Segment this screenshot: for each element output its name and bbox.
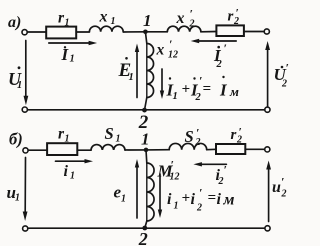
svg-text:i: i: [191, 191, 196, 208]
current arrow i1 (circuit b): [56, 160, 86, 162]
bottom wire (circuit b): [28, 227, 265, 229]
label u1: [7, 183, 21, 204]
label r2' (circuit b): [231, 127, 243, 146]
svg-text:1: 1: [141, 130, 150, 149]
svg-text:′: ′: [224, 41, 227, 55]
svg-text:+: +: [182, 191, 191, 207]
label r2': [228, 8, 240, 28]
svg-text:12: 12: [168, 50, 178, 61]
svg-text:2: 2: [218, 176, 224, 187]
svg-text:1: 1: [65, 18, 70, 29]
wire L1 to node 1: [123, 31, 145, 33]
svg-text:1: 1: [15, 193, 20, 204]
label x1: [99, 9, 116, 28]
inductor S1 (circuit b): [91, 145, 125, 150]
node 1 (circuit b): [144, 148, 149, 153]
terminal top-left (circuit b): [23, 148, 28, 153]
svg-text:м: м: [229, 84, 239, 99]
inductor M12' (magnetizing, circuit b): [147, 163, 154, 221]
label U2': [274, 61, 289, 90]
svg-text:r: r: [231, 127, 237, 143]
svg-text:′: ′: [171, 158, 174, 172]
svg-text:2: 2: [138, 229, 148, 246]
svg-text:м: м: [223, 192, 235, 209]
svg-text:r: r: [228, 9, 234, 25]
resistor r2' (circuit b): [216, 144, 245, 154]
svg-text:1: 1: [174, 201, 179, 212]
label I2': [213, 41, 227, 70]
svg-text:′: ′: [281, 175, 284, 189]
svg-text:2: 2: [195, 92, 202, 103]
svg-text:1: 1: [17, 80, 22, 91]
svg-text:12: 12: [170, 172, 180, 183]
node 2 (circuit b): [142, 226, 147, 231]
inductor x1 (circuit a): [89, 26, 123, 32]
magnetizing branch wire from node 1: [145, 32, 146, 44]
svg-text:2: 2: [281, 79, 287, 90]
wire R2'b to terminal: [245, 148, 264, 150]
svg-text:=: =: [208, 190, 217, 206]
svg-text:=: =: [203, 81, 212, 97]
svg-text:1: 1: [65, 134, 70, 145]
inductor x2' (circuit a): [167, 26, 201, 32]
svg-text:1: 1: [70, 171, 75, 182]
inductor x12' (magnetizing, circuit a): [147, 44, 154, 98]
formula I1 + I2' = Im (circuit a): [166, 74, 240, 104]
label M12': [157, 158, 180, 183]
wire R2' to terminal: [244, 31, 265, 33]
svg-text:x: x: [176, 10, 185, 27]
label U1: [8, 66, 22, 91]
bottom wire (circuit a): [28, 109, 265, 111]
label S1: [105, 124, 121, 145]
resistor r2' (circuit a): [216, 25, 244, 36]
svg-text:2: 2: [216, 59, 223, 70]
label i2': [216, 163, 227, 188]
wire node 1b to S2': [146, 149, 169, 151]
svg-text:1: 1: [116, 134, 121, 145]
label I1: [61, 45, 75, 65]
svg-text:u: u: [272, 179, 281, 196]
wire R1 to L1: [76, 31, 89, 33]
svg-text:i: i: [64, 163, 69, 180]
label u2': [272, 175, 287, 200]
wire coil to node 2b: [145, 221, 147, 228]
label S2': [185, 126, 201, 149]
wire R1b to S1: [77, 149, 91, 151]
label x12': [156, 37, 179, 61]
svg-text:x: x: [99, 9, 108, 26]
svg-text:+: +: [182, 82, 191, 98]
magnetizing current arrow (circuit b): [159, 174, 161, 211]
terminal bottom-left (circuit b): [23, 226, 28, 231]
label r1: [58, 10, 70, 29]
current arrow I2' (circuit a): [197, 40, 236, 42]
resistor r1 (circuit b): [47, 143, 77, 155]
current arrow I1 (circuit a): [49, 42, 90, 44]
terminal bottom-right (circuit a): [265, 107, 270, 112]
svg-text:1: 1: [143, 11, 152, 30]
svg-text:′: ′: [199, 186, 202, 200]
wire L2' to R2': [201, 31, 217, 33]
svg-text:S: S: [105, 124, 114, 143]
wire S2' to R2'b: [207, 148, 216, 150]
svg-text:x: x: [156, 42, 165, 59]
svg-text:2: 2: [195, 137, 201, 148]
voltage arrow u1 (circuit b): [24, 158, 26, 213]
wire coil to node 2: [145, 98, 147, 111]
terminal bottom-right (circuit b): [265, 226, 270, 231]
svg-text:1: 1: [129, 72, 134, 83]
svg-text:2: 2: [233, 16, 239, 27]
svg-text:′: ′: [286, 61, 289, 75]
svg-text:i: i: [217, 191, 222, 208]
current arrow i2' (circuit b): [200, 163, 227, 165]
label i1: [64, 163, 76, 182]
svg-text:2: 2: [281, 189, 287, 200]
svg-text:а): а): [8, 14, 21, 31]
svg-text:1: 1: [70, 54, 75, 65]
voltage arrow U1 (circuit a): [25, 41, 27, 97]
formula i1 + i2' = im (circuit b): [167, 186, 235, 214]
node 2 (circuit a): [142, 108, 147, 113]
label e1: [114, 183, 127, 205]
svg-text:1: 1: [111, 16, 116, 27]
svg-text:б): б): [9, 130, 23, 149]
svg-text:′: ′: [224, 163, 227, 177]
terminal top-right (circuit b): [265, 147, 270, 152]
magnetizing branch wire from node 1b: [145, 150, 148, 163]
svg-text:1: 1: [121, 194, 126, 205]
node 1 (circuit a): [143, 30, 148, 35]
label r1 (circuit b): [58, 126, 70, 145]
voltage arrow U2' (circuit a): [267, 49, 269, 106]
svg-text:2: 2: [236, 135, 242, 146]
inductor S2' (circuit b): [169, 143, 207, 149]
emf arrow e1 (circuit b): [136, 167, 138, 218]
wire S1 to node 1b: [125, 149, 146, 151]
svg-text:S: S: [185, 127, 194, 146]
terminal bottom-left (circuit a): [22, 107, 27, 112]
svg-text:2: 2: [196, 203, 202, 214]
terminal top-left (circuit a): [22, 30, 27, 35]
svg-text:1: 1: [173, 91, 178, 102]
resistor r1 (circuit a): [46, 27, 76, 39]
magnetizing current arrow (circuit a): [161, 69, 163, 92]
svg-text:i: i: [167, 191, 172, 208]
label E1: [118, 57, 134, 83]
emf arrow E1 (circuit a): [136, 52, 138, 98]
wire top-left to R1: [27, 31, 46, 33]
svg-text:2: 2: [189, 19, 195, 30]
label x2': [176, 7, 195, 30]
wire to R1b: [28, 149, 47, 151]
wire node 1 to L2': [145, 31, 167, 33]
terminal top-right (circuit a): [264, 29, 269, 34]
voltage arrow u2' (circuit b): [268, 169, 270, 222]
